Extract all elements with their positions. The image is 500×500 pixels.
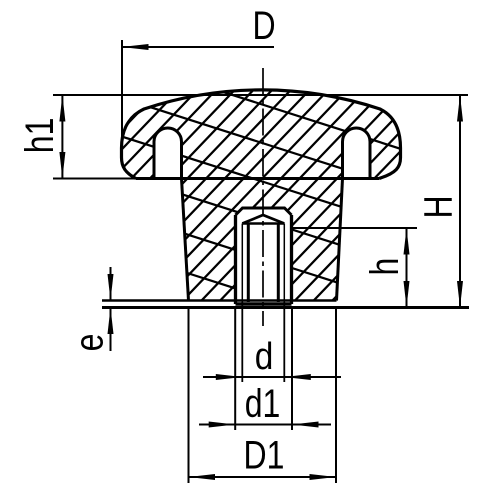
svg-text:e: e [66,334,111,352]
svg-text:D: D [252,3,275,48]
svg-text:d: d [255,335,274,377]
svg-text:H: H [415,195,460,218]
svg-text:h1: h1 [17,118,62,154]
svg-text:d1: d1 [245,380,281,425]
svg-text:h: h [362,258,407,276]
svg-text:D1: D1 [244,432,285,477]
